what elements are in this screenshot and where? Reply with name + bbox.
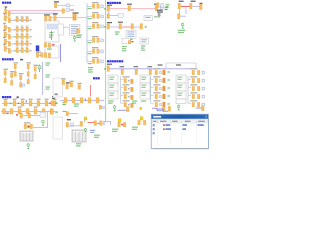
- drop device: [66, 112, 69, 116]
- green annotation band-left: [108, 100, 114, 103]
- breaker QF3: [54, 3, 57, 8]
- rail (pink) r1b: [131, 8, 155, 10]
- S2 row 3 fuse: [8, 42, 10, 47]
- pump P3: [202, 106, 205, 111]
- S2 row 1 contactor 1 label: [16, 25, 19, 28]
- S2 row 2 end terminal: [30, 36, 31, 37]
- S2 row 1 contactor 3 label: [26, 25, 29, 28]
- contactor KM7: [48, 53, 50, 58]
- pair label s5: [24, 122, 30, 123]
- green annotation s4-2: [46, 74, 51, 77]
- load group 2-1: [153, 68, 170, 75]
- yellow node dot: [140, 107, 142, 109]
- dialog right shadow: [208, 116, 210, 149]
- green annotation column B: [141, 45, 145, 50]
- load group 1-1: [123, 76, 134, 83]
- S2 row 1 contactor 3: [26, 27, 28, 32]
- S2 row 1 node dot 1 (green): [14, 29, 15, 30]
- pump P2: [163, 107, 166, 112]
- riser (lavender) s5: [47, 112, 49, 128]
- S2 row 2 contactor 2 label: [21, 32, 24, 35]
- breaker QF2 label text: [4, 16, 7, 17]
- S2 row 3 contactor 3: [26, 41, 28, 46]
- green annotation bm2: [132, 127, 138, 130]
- annotation box AB1: [45, 21, 59, 42]
- bus1 device 6: [45, 101, 48, 106]
- rail L2 (pink): [52, 17, 73, 19]
- isolation box IB1: [58, 24, 63, 35]
- bus1 device 7 label: [53, 99, 57, 100]
- S1 feeder row end terminal: [30, 19, 31, 20]
- tree top link wire: [166, 63, 196, 69]
- feeder group G3: [87, 22, 103, 29]
- S2 row 1 end terminal: [30, 29, 31, 30]
- tr2 breaker 4: [178, 14, 181, 19]
- bus row mid (lavender): [60, 99, 104, 101]
- bus2 device 4: [26, 109, 29, 114]
- bus2 label 1: [18, 106, 22, 107]
- section 4 title text (blue): [2, 58, 14, 60]
- mid small device: [99, 105, 101, 109]
- wire: [39, 54, 40, 56]
- green annotation under TB1: [77, 35, 82, 36]
- riser wire (lavender) section 4: [42, 62, 44, 95]
- S2 row 2 contactor 1: [16, 34, 18, 39]
- step device 3 label: [78, 83, 82, 84]
- dialog row 1: [153, 124, 204, 126]
- S1 feeder row contactor 1: [16, 17, 18, 22]
- S2 row 2 contactor 1 label: [16, 32, 19, 35]
- dialog body column separators: [158, 124, 197, 146]
- green annotation mid-bottom 2: [76, 143, 81, 146]
- step device 2 label: [70, 81, 74, 82]
- bus2 device 5: [34, 109, 37, 114]
- tree top label A: [158, 64, 163, 65]
- S1 feeder row contactor 2 label: [21, 15, 24, 18]
- earth node r3 end (green): [145, 26, 147, 27]
- S2 row 4 node dot 2 (green): [19, 50, 20, 51]
- mid bus device 1: [64, 98, 67, 103]
- bus1 device 4: [29, 101, 32, 106]
- green text inside AB2: [47, 48, 52, 49]
- contactor KM12: [131, 24, 134, 29]
- starter device 2: [80, 121, 83, 126]
- terminal block TB3 (blue text): [140, 38, 148, 44]
- S1 feeder row fuse: [8, 18, 10, 23]
- S2 row 2 node dot 2 (green): [19, 36, 20, 37]
- S2 row 1 contactor 1: [16, 27, 18, 32]
- S2 row 4 upper wire: [7, 47, 10, 49]
- green annotation band-mid: [132, 100, 137, 103]
- motor symbol (green): [74, 35, 76, 41]
- pair bm2 A: [138, 120, 141, 125]
- actuator (green): [42, 120, 44, 126]
- link mark (dark red): [27, 126, 29, 128]
- green annotation mid-bottom: [94, 135, 100, 138]
- main lateral wire (lavender): [110, 68, 197, 70]
- red node bus1: [18, 103, 19, 104]
- load group 2-5: [153, 100, 170, 107]
- tr2 label B: [191, 1, 196, 2]
- bus row 2 (lavender): [1, 110, 55, 112]
- section 3 title text (blue): [107, 60, 123, 62]
- load group 3-2: [190, 76, 204, 83]
- thermal mark (red): [131, 41, 133, 42]
- pump P1: [127, 107, 130, 112]
- load group 3-4: [190, 92, 204, 99]
- S2 row 1 left breaker: [3, 23, 6, 31]
- tr2 red wire: [181, 5, 190, 7]
- contactor KM21: [28, 113, 31, 118]
- S2 row 2 contactor 3: [26, 34, 28, 39]
- wire r3b (red): [122, 26, 131, 28]
- dialog close button: [205, 115, 207, 117]
- mid bus device 5: [96, 98, 99, 103]
- row1 label: [107, 5, 112, 6]
- tr2 drop wire 1: [185, 6, 187, 14]
- pink wire stub 2: [70, 5, 75, 7]
- breaker QF7: [107, 66, 110, 72]
- S1 feeder row contactor 2: [21, 17, 23, 22]
- indicator HL1 (blue): [36, 46, 39, 51]
- earth node (green) r3: [104, 26, 106, 27]
- load group 3-1: [190, 68, 204, 75]
- wire from IB1: [63, 26, 68, 28]
- actuator (green): [182, 23, 184, 29]
- S2 row 3 node dot 2 (green): [19, 43, 20, 44]
- section 2 title text (blue): [107, 2, 121, 4]
- feeder stack E: [10, 71, 15, 85]
- drop wire (lavender): [69, 112, 78, 114]
- device DL2 green mark: [55, 111, 57, 112]
- wire r3a (lavender): [110, 26, 119, 28]
- rail (pink) r1a: [110, 8, 128, 10]
- mid bus device 2: [72, 98, 75, 103]
- S1 feeder row wire (lavender): [11, 19, 31, 21]
- pump P4: [168, 106, 171, 111]
- pair link wire: [97, 122, 100, 124]
- pair device B: [100, 121, 103, 126]
- breaker QF5: [107, 6, 110, 11]
- breaker symbol QF1 label text: [5, 6, 8, 7]
- S2 row 1 wire (lavender): [11, 29, 31, 31]
- contactor KM14 label: [120, 66, 125, 67]
- actuator (green): [114, 105, 116, 111]
- bus1 device 7: [53, 101, 56, 106]
- feeder stack A: [13, 62, 18, 76]
- mid bus device 3: [80, 98, 83, 103]
- bus1 device 3: [21, 101, 24, 106]
- flag (yellow) bm2: [140, 117, 143, 120]
- S2 row 2 upper wire: [7, 33, 10, 35]
- contactor KM10 label: [154, 4, 159, 5]
- S2 row 3 contactor 3 label: [26, 39, 29, 42]
- load group 1-3: [123, 92, 134, 99]
- feeder stack C: [33, 65, 38, 79]
- CB1 side label: [66, 82, 70, 83]
- relay box RB1: [144, 15, 152, 20]
- load group 1-4: [123, 100, 134, 107]
- pink wire stub: [57, 5, 66, 7]
- tr2 device 3: [200, 4, 203, 10]
- contactor KM2: [45, 16, 48, 21]
- S2 row 2 wire (lavender): [11, 36, 31, 38]
- bus1 device 4 label: [29, 99, 33, 100]
- S2 row 3 contactor 1 label: [16, 39, 19, 42]
- dialog title text: [153, 116, 161, 118]
- S2 row 3 contactor 2 label: [21, 39, 24, 42]
- bus1 device 2: [13, 101, 16, 106]
- feeder stack F: [19, 73, 24, 87]
- S1 feeder row left breaker: [3, 13, 6, 21]
- page divider line (pale green): [105, 0, 107, 122]
- bus1 device 6 label: [45, 99, 49, 100]
- dialog title bar: [152, 115, 208, 119]
- green symbol mid-bottom: [84, 128, 86, 132]
- feeder group G6: [87, 57, 103, 64]
- CB1 side device: [66, 84, 69, 89]
- contactor KM9: [128, 6, 131, 11]
- drop wire (lavender): [108, 12, 110, 16]
- blue mark s4: [23, 84, 25, 86]
- mid small blue mark: [102, 106, 104, 109]
- green annotation s4-1: [46, 62, 51, 65]
- S2 row 2 node dot 3 (green): [24, 36, 25, 37]
- red link bm1: [121, 124, 123, 126]
- contactor KM23: [30, 124, 33, 129]
- feeder tree spine (vertical): [86, 3, 88, 62]
- S2 row 2 left breaker: [3, 30, 6, 38]
- green annotation mid bus: [74, 103, 79, 106]
- red wire link: [88, 121, 95, 123]
- S2 row 4 fuse: [8, 49, 10, 54]
- S2 row 3 end terminal: [30, 43, 31, 44]
- S2 row 3 upper wire: [7, 40, 10, 42]
- relay box RB2: [122, 38, 130, 43]
- red node bus3: [16, 114, 18, 115]
- transformer block (grey): [20, 131, 33, 141]
- dialog window: [151, 114, 208, 148]
- bus1 device 2 label: [13, 99, 17, 100]
- S1 feeder row contactor 3: [26, 17, 28, 22]
- thermal relay mark (red): [52, 44, 54, 46]
- tr device 1: [157, 3, 160, 8]
- S2 row 4 contactor 1 label: [16, 46, 19, 49]
- starter aux (blue): [71, 123, 73, 126]
- breaker QF1: [5, 9, 7, 14]
- green note DL2: [63, 111, 67, 112]
- branch wire bm: [104, 121, 111, 125]
- S2 row 4 end terminal: [30, 50, 31, 51]
- contactor KM6: [44, 53, 46, 58]
- bus rail N1 (lavender): [10, 12, 58, 14]
- bus1 device 3 label: [21, 99, 25, 100]
- contactor KM4: [44, 43, 46, 47]
- meter M5: [40, 112, 46, 117]
- green note 2: [154, 16, 158, 17]
- logo blob inside AB1: [47, 24, 57, 29]
- contactor KM5: [48, 43, 50, 47]
- terminal block TB2 (blue text): [126, 30, 136, 38]
- wire r3c (lavender): [134, 26, 140, 28]
- S2 row 1 contactor 2: [21, 27, 23, 32]
- S2 row 3 contactor 2: [21, 41, 23, 46]
- starter wire: [69, 125, 80, 127]
- tr2 breaker 1: [178, 3, 181, 8]
- contactor KM9 label: [127, 4, 132, 5]
- contactor pair A: [36, 53, 39, 58]
- tr green note: [166, 4, 170, 5]
- tr2 device 3 cap: [200, 3, 203, 4]
- contactor KM10: [155, 6, 158, 11]
- section 1 title text (blue): [2, 2, 11, 4]
- feeder stack D: [3, 69, 8, 83]
- S2 row 2 node dot 1 (green): [14, 36, 15, 37]
- riser wire (blue): [60, 44, 62, 62]
- feeder group G4: [87, 36, 103, 43]
- section 5 header mark: [17, 96, 19, 98]
- S3 row label: [107, 64, 112, 65]
- dialog row 3: [153, 132, 155, 134]
- breaker QF4 label: [53, 13, 58, 14]
- aux contact (blue): [160, 7, 163, 10]
- ground symbol: [157, 14, 160, 18]
- description box column 3 (green text): [176, 75, 186, 99]
- tr green annotation: [178, 30, 185, 33]
- bus row 1 (lavender): [2, 102, 57, 104]
- S2 row 4 contactor 1: [16, 48, 18, 53]
- starter device: [66, 122, 69, 127]
- S2 row 4 contactor 2 label: [21, 46, 24, 49]
- tr2 label A: [179, 1, 184, 2]
- terminal block TB1 (blue text box): [70, 25, 80, 36]
- mid-top feeder label: [54, 1, 59, 2]
- section 5 title text (blue): [2, 96, 11, 98]
- S2 row 3 contactor 1: [16, 41, 18, 46]
- transformer T1 label: [73, 12, 79, 13]
- step device 1 label: [62, 78, 66, 79]
- green annotation column A: [122, 46, 127, 51]
- red riser wire: [90, 85, 92, 97]
- S2 row 2 fuse: [8, 35, 10, 40]
- red link bus2: [6, 113, 9, 114]
- description box column 1 (green text): [108, 75, 118, 99]
- S2 bottom pair label: [36, 52, 41, 53]
- S2 row 3 node dot 1 (green): [14, 43, 15, 44]
- bus2 device 1: [3, 109, 6, 114]
- description box column 2 (green text): [140, 75, 150, 99]
- contactor KM1 on rail L1: [62, 9, 65, 14]
- device DL2: [51, 110, 54, 115]
- dialog bottom shadow: [154, 148, 209, 150]
- S2 row 4 node dot 3 (green): [24, 50, 25, 51]
- S2 row 2 contactor 3 label: [26, 32, 29, 35]
- bus1 device 1 label: [4, 99, 8, 100]
- bus rail L1 (pink): [7, 10, 64, 12]
- tree top label B: [176, 64, 181, 65]
- meter M2: [66, 4, 70, 7]
- load group 1-2: [123, 84, 134, 91]
- green annotation r3: [115, 31, 120, 34]
- meter M4: [118, 13, 123, 17]
- tree bracket 3: [188, 76, 191, 103]
- device DL1 green mark: [55, 102, 57, 103]
- mid bus device 4: [88, 98, 91, 103]
- cabinet box CB1: [53, 78, 62, 97]
- motor starter label: [67, 119, 71, 120]
- feeder group G2: [87, 12, 103, 19]
- bus2 device 6: [42, 109, 45, 114]
- S2 row 1 node dot 2 (green): [19, 29, 20, 30]
- feeder stack B: [26, 62, 31, 84]
- green annotation band-mid2: [141, 100, 146, 101]
- tr2 lavender wire: [193, 5, 200, 7]
- bus2 device 7: [50, 109, 53, 114]
- mid bus blue contact: [85, 98, 87, 101]
- annotation box AB2: [45, 46, 59, 58]
- valve symbol V1 (green) inside AB1: [49, 31, 54, 40]
- S2 row 4 left breaker: [3, 44, 6, 52]
- load group 2-2: [153, 76, 170, 83]
- tr gnd label: [157, 10, 163, 11]
- dialog column header row: [152, 119, 207, 123]
- tr device 1 aux (blue): [161, 4, 164, 8]
- load group 3-3: [190, 84, 204, 91]
- S1 feeder row node dot 3 (green): [24, 19, 25, 20]
- pair bm1 A: [118, 122, 121, 127]
- wire (blue): [118, 109, 127, 111]
- S2 row 4 wire (lavender): [11, 50, 31, 52]
- contactor KM13: [140, 24, 143, 29]
- fuse FU1 on rail N1: [8, 11, 10, 16]
- green bits under TB2: [128, 39, 133, 40]
- tr2 breaker 2: [190, 3, 193, 8]
- blue contact bus1: [26, 100, 27, 103]
- green device (section 4): [38, 65, 41, 73]
- S1 feeder row contactor 1 label: [16, 15, 19, 18]
- S1 feeder row node dot 2 (green): [19, 19, 20, 20]
- S1 feeder row node dot 1 (green): [14, 19, 15, 20]
- feeder group G5: [87, 47, 103, 54]
- S2 row 4 contactor 3: [26, 48, 28, 53]
- wire r2: [110, 15, 118, 17]
- step device 3: [78, 85, 81, 90]
- contactor KM16 label: [148, 66, 153, 67]
- bus2 label 2: [34, 106, 38, 107]
- load group 3-5: [190, 100, 204, 107]
- blue annotation mid-bottom: [90, 130, 95, 133]
- contactor KM8: [77, 29, 80, 33]
- S2 row 4 contactor 2: [21, 48, 23, 53]
- S2 row 1 node dot 3 (green): [24, 29, 25, 30]
- tr2 wire low: [181, 15, 187, 17]
- bus1 device 1: [4, 101, 7, 106]
- contactor KM15: [135, 69, 138, 74]
- S2 row 3 left breaker: [3, 37, 6, 45]
- gnd label text: [157, 11, 163, 12]
- contactor pair B: [41, 53, 44, 58]
- pair device A: [94, 121, 97, 126]
- bus1 device 5 label: [37, 99, 41, 100]
- flag (yellow) bm1: [118, 119, 121, 122]
- S2 row 1 fuse: [8, 28, 10, 33]
- green annotation s4-3: [46, 86, 51, 89]
- green annotation bm1: [112, 129, 118, 132]
- flag symbol (yellow): [84, 117, 87, 123]
- green node bus1: [10, 103, 11, 104]
- fuse FU2: [107, 14, 110, 19]
- S1 feeder row upper wire: [7, 17, 10, 19]
